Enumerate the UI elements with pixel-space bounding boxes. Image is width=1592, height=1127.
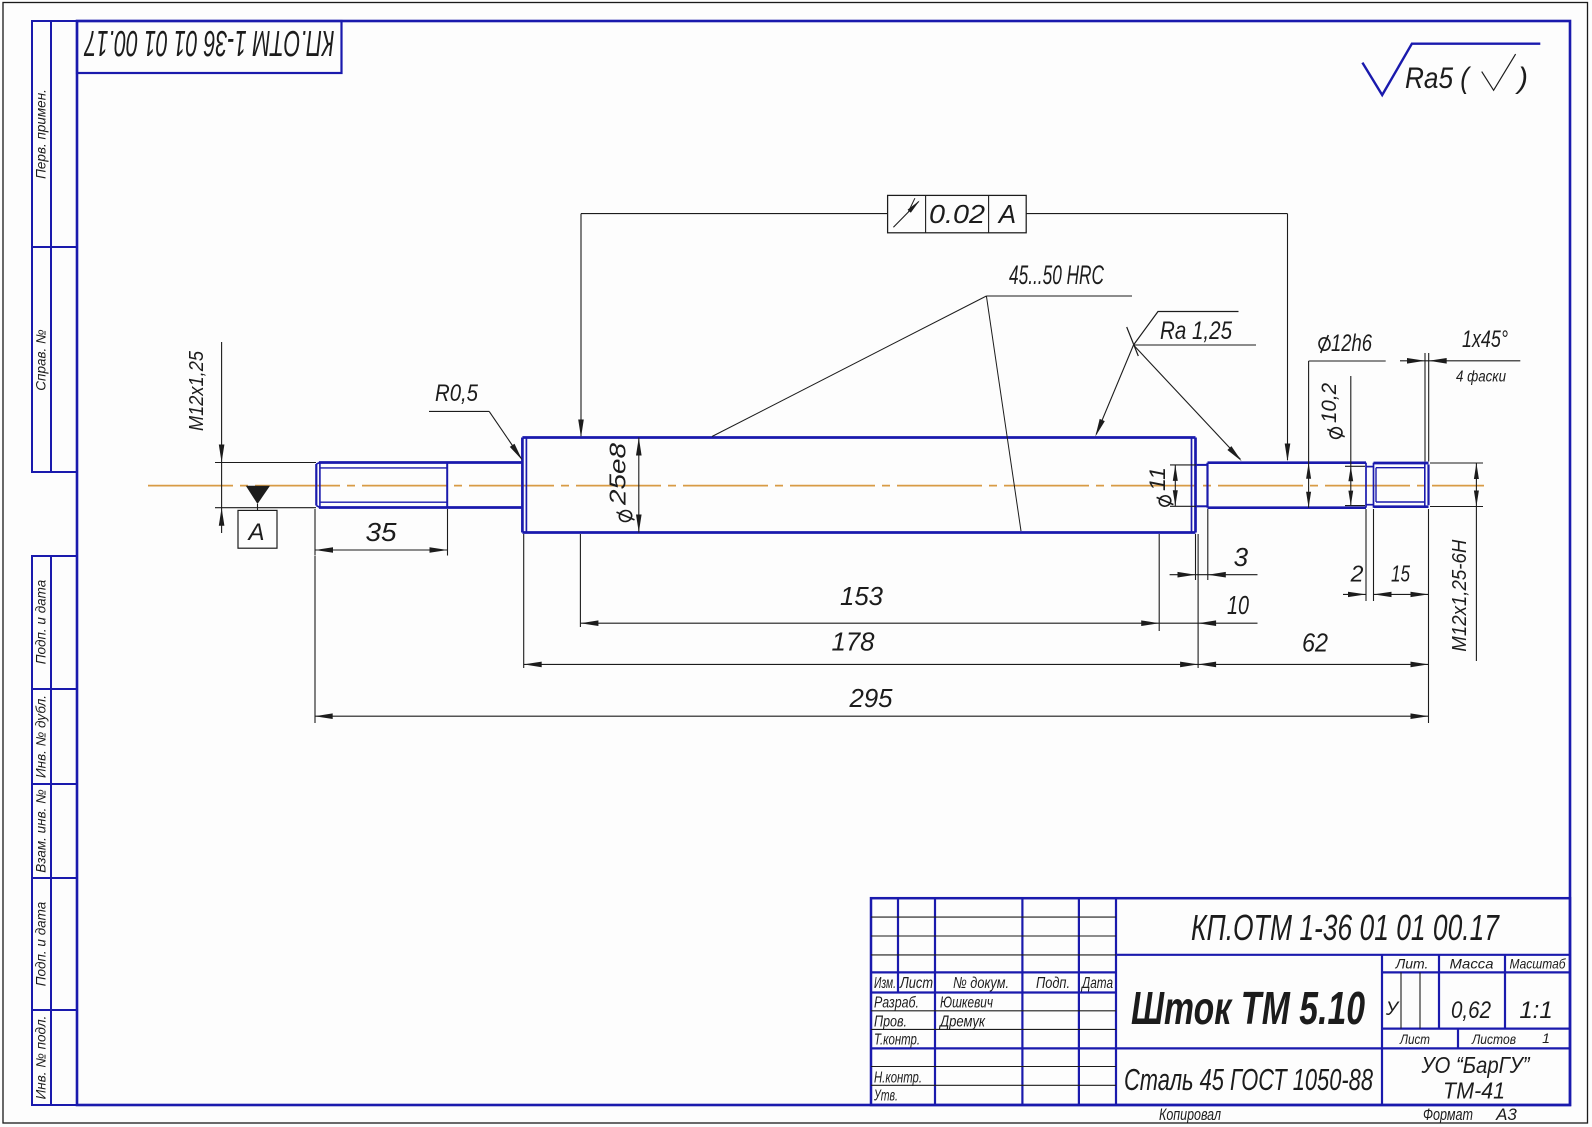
svg-text:Лист: Лист bbox=[1399, 1031, 1430, 1047]
svg-text:3: 3 bbox=[1234, 542, 1249, 572]
svg-text:Сталь 45 ГОСТ 1050-88: Сталь 45 ГОСТ 1050-88 bbox=[1124, 1062, 1374, 1097]
dimension 35 bbox=[314, 509, 316, 556]
dimension 2 extension lines bbox=[1365, 509, 1367, 601]
svg-text:Ra 1,25: Ra 1,25 bbox=[1160, 317, 1232, 345]
dimension d25e8 bbox=[638, 438, 640, 533]
svg-text:УО “БарГУ”: УО “БарГУ” bbox=[1421, 1052, 1531, 1078]
svg-text:КП.ОТМ 1-36 01 01 00.17: КП.ОТМ 1-36 01 01 00.17 bbox=[1191, 907, 1500, 948]
d12h6 section bbox=[1206, 463, 1208, 508]
svg-text:Юшкевич: Юшкевич bbox=[940, 995, 993, 1012]
roughness flag Ra 1,25 bbox=[1127, 327, 1139, 356]
svg-text:62: 62 bbox=[1302, 628, 1328, 658]
svg-text:Т.контр.: Т.контр. bbox=[874, 1032, 920, 1049]
dimension d12h6 bbox=[1318, 335, 1331, 353]
datum A triangle bbox=[246, 486, 270, 504]
svg-text:Справ. №: Справ. № bbox=[34, 329, 49, 391]
dimension M12x1,25 left bbox=[215, 462, 316, 464]
svg-text:25е8: 25е8 bbox=[605, 443, 631, 506]
Ra5 surface roughness symbol bbox=[1362, 44, 1540, 95]
svg-text:Разраб.: Разраб. bbox=[874, 995, 919, 1012]
svg-text:Инв. № подл.: Инв. № подл. bbox=[34, 1016, 49, 1100]
svg-text:Подп.: Подп. bbox=[1036, 975, 1070, 992]
shaft centerline bbox=[148, 485, 1484, 487]
leader from frame to d12 (right) bbox=[1026, 213, 1287, 215]
svg-text:Листов: Листов bbox=[1471, 1031, 1516, 1047]
left thread end line bbox=[446, 463, 448, 508]
relief groove d10.2 bbox=[1365, 463, 1367, 508]
title block outer bbox=[871, 898, 1570, 1105]
svg-text:Взам. инв. №: Взам. инв. № bbox=[34, 789, 49, 873]
svg-text:295: 295 bbox=[849, 683, 894, 713]
dimension M12x1,25-6H right bbox=[1430, 462, 1483, 464]
title block verticals bbox=[897, 898, 899, 992]
title block horizontals blue bbox=[1116, 954, 1570, 956]
svg-text:КП.ОТМ 1-36 01 01 00.17: КП.ОТМ 1-36 01 01 00.17 bbox=[83, 23, 334, 64]
extension lines under shaft bbox=[314, 556, 316, 723]
neck groove d11 bbox=[1196, 464, 1208, 466]
svg-text:1х45°: 1х45° bbox=[1462, 326, 1508, 353]
svg-text:Изм.: Изм. bbox=[874, 975, 896, 992]
svg-text:Масштаб: Масштаб bbox=[1510, 956, 1567, 972]
svg-text:10: 10 bbox=[1227, 590, 1249, 620]
svg-text:Копировал: Копировал bbox=[1159, 1105, 1221, 1124]
shaft: left threaded end M12 outline bbox=[315, 464, 317, 506]
runout tolerance frame 0.02 A bbox=[888, 195, 1027, 232]
svg-text:178: 178 bbox=[832, 627, 876, 657]
svg-text:12h6: 12h6 bbox=[1331, 330, 1373, 357]
dimension 15 bbox=[1374, 593, 1429, 595]
svg-text:№ докум.: № докум. bbox=[953, 975, 1009, 992]
dimension 3 bbox=[1195, 534, 1197, 580]
svg-text:У: У bbox=[1385, 999, 1400, 1020]
svg-text:ТМ-41: ТМ-41 bbox=[1443, 1078, 1505, 1104]
svg-text:А3: А3 bbox=[1495, 1105, 1517, 1124]
svg-text:0.02: 0.02 bbox=[929, 199, 986, 229]
svg-text:Утв.: Утв. bbox=[873, 1088, 898, 1105]
svg-text:1: 1 bbox=[1542, 1030, 1550, 1046]
dimension d10,2 bbox=[1327, 427, 1344, 440]
svg-text:Дремук: Дремук bbox=[938, 1014, 986, 1031]
svg-text:15: 15 bbox=[1391, 561, 1410, 587]
right thread minor diameter lines bbox=[1376, 467, 1425, 469]
dimension 2 bbox=[1343, 593, 1366, 595]
main body d25 bbox=[521, 438, 524, 533]
svg-text:Лит.: Лит. bbox=[1395, 956, 1429, 972]
top designation box bbox=[77, 21, 342, 73]
svg-text:Н.контр.: Н.контр. bbox=[874, 1070, 922, 1087]
left thread minor diameter lines bbox=[320, 467, 447, 469]
svg-text:Шток ТМ 5.10: Шток ТМ 5.10 bbox=[1131, 982, 1365, 1034]
svg-text:1:1: 1:1 bbox=[1519, 997, 1552, 1024]
svg-text:М12х1,25-6Н: М12х1,25-6Н bbox=[1449, 539, 1471, 652]
svg-text:Подп. и дата: Подп. и дата bbox=[34, 901, 49, 986]
dimension 153 and 10 bbox=[580, 622, 1257, 624]
svg-text:Пров.: Пров. bbox=[874, 1014, 907, 1031]
dimension d11 bbox=[1170, 464, 1196, 466]
lit sub columns bbox=[1400, 972, 1402, 1028]
svg-text:0,62: 0,62 bbox=[1451, 997, 1491, 1024]
svg-text:R0,5: R0,5 bbox=[435, 380, 479, 407]
svg-text:35: 35 bbox=[366, 517, 398, 547]
svg-text:11: 11 bbox=[1145, 467, 1170, 491]
svg-text:Формат: Формат bbox=[1423, 1105, 1473, 1124]
svg-text:2: 2 bbox=[1350, 561, 1364, 587]
svg-text:4 фаски: 4 фаски bbox=[1456, 369, 1506, 386]
svg-text:45...50 HRC: 45...50 HRC bbox=[1009, 260, 1104, 290]
title block thin rows bbox=[871, 916, 1116, 918]
svg-text:Инв. № дубл.: Инв. № дубл. bbox=[34, 695, 49, 778]
svg-text:Лист: Лист bbox=[899, 975, 933, 992]
svg-text:Перв. примен.: Перв. примен. bbox=[34, 89, 49, 179]
leader from frame to body (left) bbox=[581, 213, 888, 215]
svg-text:Ra5 (: Ra5 ( bbox=[1405, 62, 1472, 95]
svg-text:А: А bbox=[997, 199, 1016, 229]
left margin column boxes bbox=[32, 21, 77, 247]
svg-text:Подп. и дата: Подп. и дата bbox=[34, 579, 49, 664]
dimension 178 and 62 bbox=[524, 663, 1429, 665]
datum A box bbox=[238, 510, 277, 548]
svg-text:Масса: Масса bbox=[1450, 956, 1494, 972]
svg-text:10,2: 10,2 bbox=[1318, 383, 1341, 423]
svg-text:А: А bbox=[246, 519, 264, 546]
svg-text:Дата: Дата bbox=[1081, 975, 1114, 992]
svg-text:153: 153 bbox=[840, 581, 884, 611]
svg-text:М12х1,25: М12х1,25 bbox=[186, 350, 208, 431]
right threaded end M12 outline bbox=[1374, 462, 1429, 465]
dimension 295 bbox=[315, 715, 1429, 717]
